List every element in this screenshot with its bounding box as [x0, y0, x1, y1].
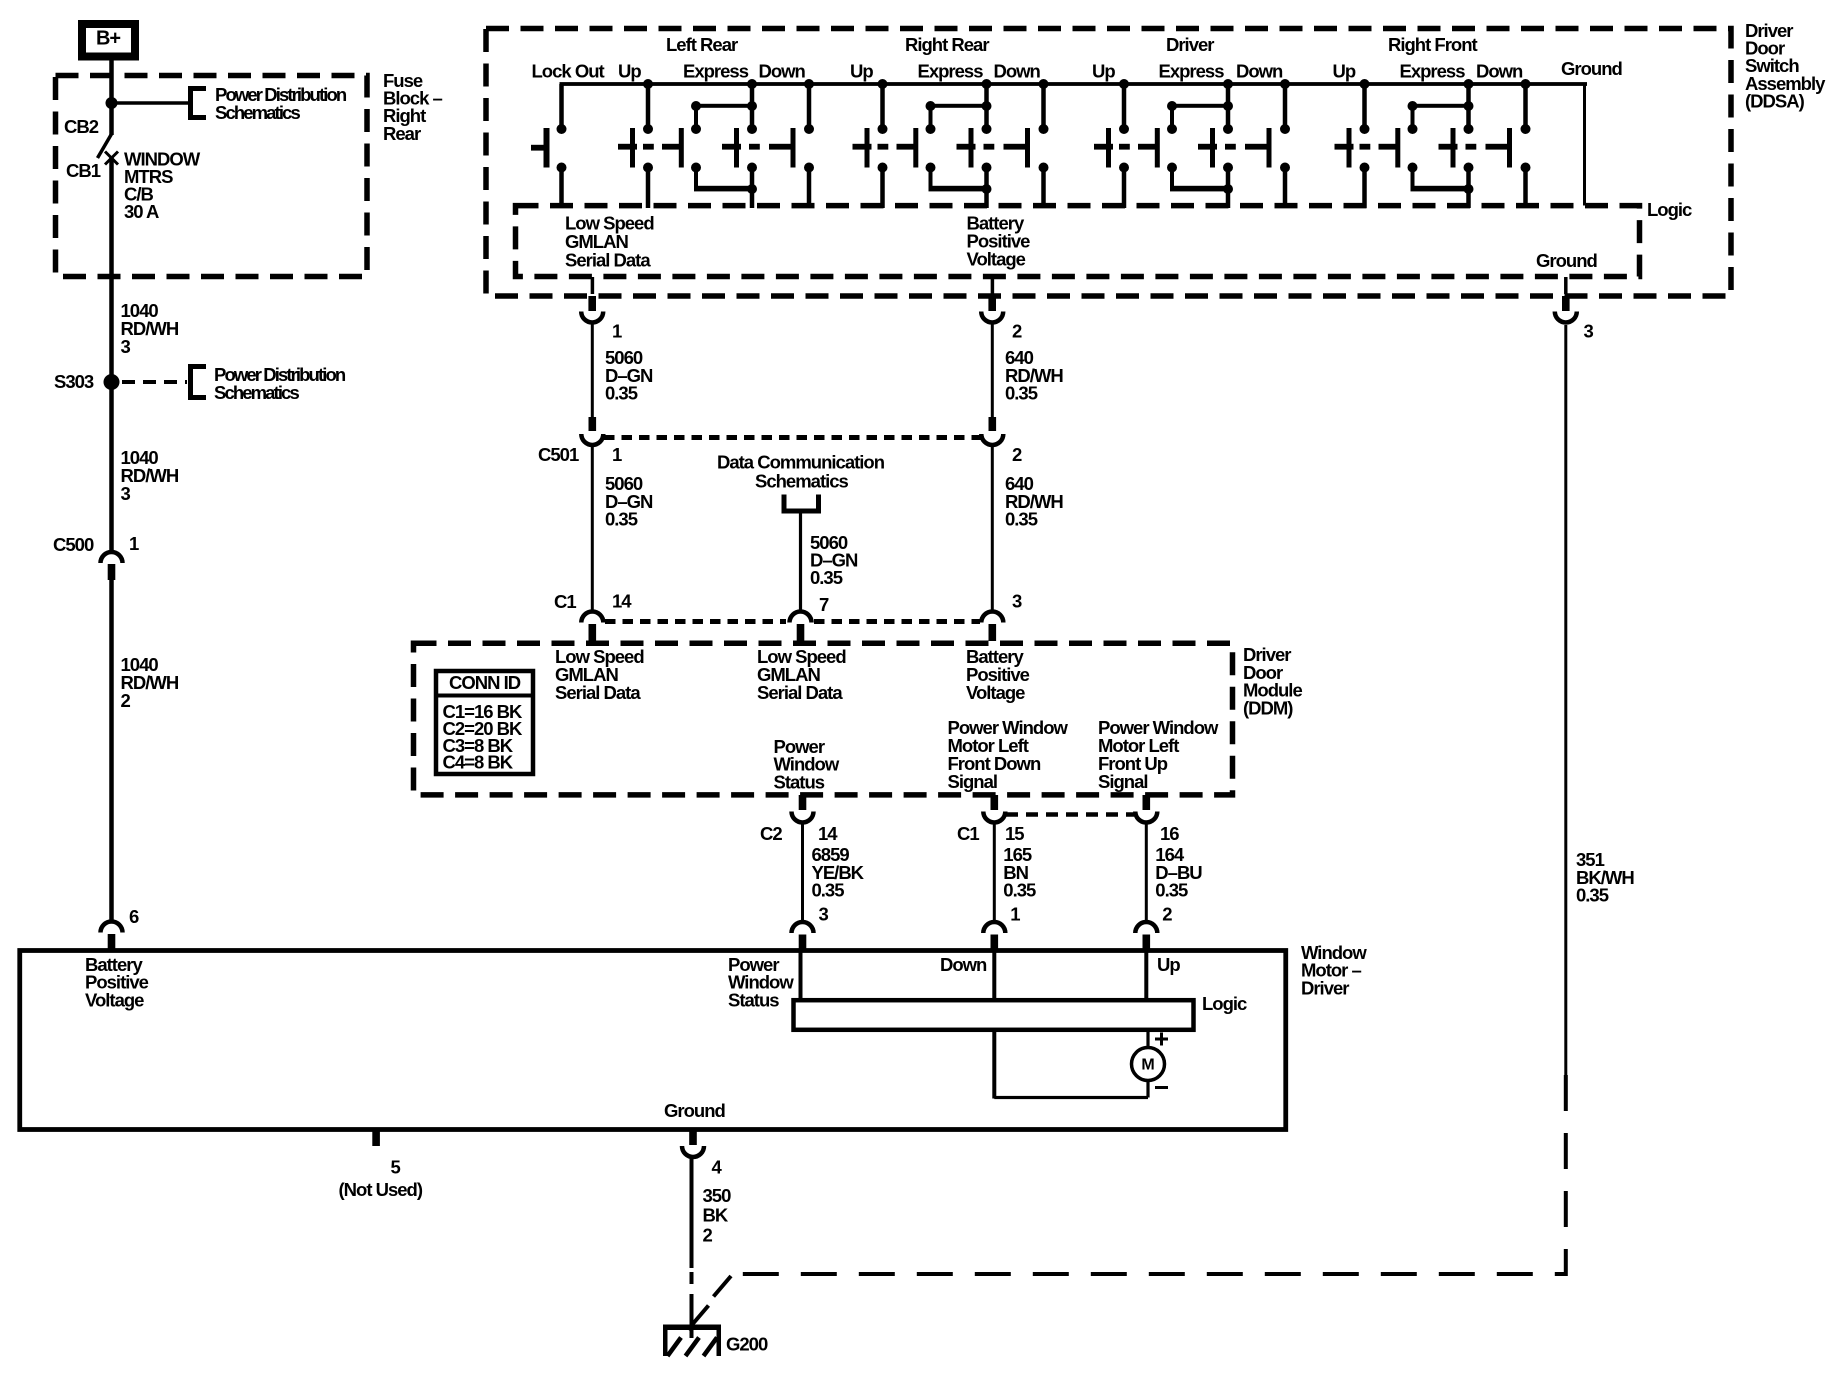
svg-text:0.35: 0.35: [1576, 885, 1609, 906]
wire 5060 D-GN data communication branch: [799, 511, 802, 611]
Driver Down switch terminals: [1280, 124, 1290, 173]
Right Front Down switch bus junction dot: [1521, 79, 1531, 89]
label wire 350 BK 2: [703, 1185, 732, 1245]
wire from DDM pin 14 to window motor: [801, 823, 804, 921]
label Data Communication Schematics: [717, 452, 885, 492]
Right Rear Express switch bus junction dot: [982, 79, 992, 89]
Right Front Express switch bus junction dot: [1464, 79, 1474, 89]
svg-text:0.35: 0.35: [1005, 383, 1038, 404]
bracket Data Communication Schematics: [784, 495, 819, 512]
Right Rear Express switch contacts glyph: [957, 128, 1031, 168]
DDSA pin 3 ground wire through logic edge: [1564, 277, 1568, 294]
label Power Window Status (DDM): [774, 736, 840, 792]
svg-text:C501: C501: [538, 444, 579, 465]
label Low Speed GMLAN Serial Data (DDM pin 7): [757, 646, 846, 703]
svg-text:Data Communication: Data Communication: [717, 452, 885, 473]
wire down signal below logic block: [992, 1030, 996, 1099]
Driver Up switch terminals: [1119, 124, 1129, 173]
svg-text:Right Front: Right Front: [1388, 34, 1478, 55]
label Low Speed GMLAN Serial Data (DDM pin 14): [555, 646, 644, 703]
svg-text:Ground: Ground: [664, 1100, 725, 1121]
svg-text:16: 16: [1160, 823, 1179, 844]
wire motor return horizontal: [994, 1096, 1148, 1099]
Left Rear Express upper bracket: [691, 101, 757, 127]
svg-text:0.35: 0.35: [1003, 880, 1036, 901]
Right Rear Up switch terminals: [878, 124, 888, 173]
svg-text:B+: B+: [96, 28, 120, 50]
window motor pin 4 stub: [689, 1131, 697, 1145]
wire C500 to window motor pin 6: [109, 580, 114, 920]
svg-text:Driver: Driver: [1166, 34, 1214, 55]
svg-text:0.35: 0.35: [810, 567, 843, 588]
label wire 640 RD/WH 0.35 (upper): [1005, 347, 1063, 404]
wire 350 BK to G200: [690, 1157, 694, 1268]
ground G200 symbol: [663, 1325, 721, 1357]
svg-text:Express: Express: [683, 61, 749, 82]
wire 5060 D-GN C501 to C1: [591, 445, 594, 611]
Right Front Up switch contacts glyph: [1335, 128, 1401, 168]
svg-text:0.35: 0.35: [605, 383, 638, 404]
wire power window status into logic block: [799, 952, 803, 1001]
wire 640 RD/WH from pin 2 to C501: [991, 323, 994, 421]
Right Rear Express switch terminals: [926, 124, 992, 173]
svg-text:Logic: Logic: [1647, 199, 1692, 220]
svg-text:0.35: 0.35: [605, 509, 638, 530]
window motor pin 1 terminal cup: [983, 922, 1005, 933]
DDSA pin 1 wire through logic edge: [591, 277, 595, 294]
node CB2 junction dot: [106, 97, 118, 109]
svg-text:Up: Up: [850, 61, 873, 82]
label Battery Positive Voltage (DDM pin 3): [966, 646, 1030, 703]
ground G200 strike slash: [688, 1306, 709, 1330]
Left Rear Up switch contacts glyph: [618, 128, 684, 168]
svg-text:Lock Out: Lock Out: [532, 61, 605, 82]
svg-text:Voltage: Voltage: [967, 249, 1026, 270]
connector C1 stub into DDM: [989, 624, 997, 641]
dashed branch S303 to power distribution bracket: [122, 380, 187, 384]
svg-text:Driver: Driver: [1301, 977, 1349, 998]
label Battery Positive Voltage (DDSA logic): [967, 213, 1031, 270]
circuit breaker CB1 contact X: [105, 152, 118, 165]
svg-text:BK: BK: [703, 1205, 729, 1226]
window motor driver box outline: [20, 951, 1286, 1130]
label Driver Door Switch Assembly (DDSA): [1745, 20, 1826, 111]
label Driver Door Module (DDM): [1243, 644, 1302, 718]
svg-text:15: 15: [1005, 823, 1024, 844]
svg-text:1: 1: [612, 444, 622, 465]
DDSA pin 1 male pin stub: [588, 296, 596, 311]
svg-text:CONN ID: CONN ID: [449, 672, 521, 693]
svg-text:Serial Data: Serial Data: [555, 682, 641, 703]
wire 350 BK lower segment: [690, 1294, 694, 1338]
Driver Express switch drop wire: [1226, 84, 1231, 127]
svg-text:Ground: Ground: [1561, 58, 1622, 79]
B+ battery feed box: [82, 24, 135, 57]
svg-text:0.35: 0.35: [812, 880, 845, 901]
Right Front Down switch wire to logic: [1523, 171, 1528, 208]
DDM pin 14 terminal cup: [792, 812, 814, 823]
lock out switch contact bar: [531, 128, 550, 168]
CONN ID table box: [436, 671, 533, 774]
Right Rear Up switch bus junction dot: [878, 79, 888, 89]
bracket Power Distribution Schematics (top): [191, 89, 207, 118]
connector pin 6 male pin stub: [108, 934, 116, 950]
svg-text:Serial Data: Serial Data: [757, 682, 843, 703]
label Power Window Status (motor): [728, 954, 794, 1010]
svg-text:C4=8 BK: C4=8 BK: [443, 752, 514, 773]
ground drop wire from bus to logic: [1583, 84, 1586, 206]
svg-text:2: 2: [1012, 321, 1022, 342]
Right Front Up switch terminals: [1360, 124, 1370, 173]
Driver Up switch wire to logic: [1122, 171, 1127, 208]
svg-text:Up: Up: [1333, 61, 1356, 82]
Right Front Up switch drop wire: [1362, 84, 1367, 127]
svg-text:C1: C1: [554, 591, 576, 612]
svg-text:6: 6: [129, 906, 139, 927]
wire up into logic block: [1144, 952, 1148, 1001]
label motor minus: [1155, 1086, 1168, 1089]
svg-text:5: 5: [391, 1157, 401, 1178]
svg-text:3: 3: [121, 336, 131, 357]
svg-text:30 A: 30 A: [124, 201, 159, 222]
svg-text:CB2: CB2: [64, 116, 99, 137]
Right Rear Express upper bracket: [926, 101, 992, 127]
svg-text:14: 14: [818, 823, 838, 844]
DDSA pin 2 wire through logic edge: [991, 277, 995, 294]
svg-text:Logic: Logic: [1202, 993, 1247, 1014]
svg-text:3: 3: [121, 483, 131, 504]
label Low Speed GMLAN Serial Data (DDSA logic): [565, 213, 654, 271]
DDSA pin 2 terminal cup: [981, 312, 1003, 323]
label Power Distribution Schematics (top): [215, 84, 347, 123]
connector C501 stub pin 2: [989, 417, 997, 431]
label Power Distribution Schematics (S303): [214, 364, 346, 403]
window motor pin 3 stub: [799, 935, 807, 951]
labels connector IDs C1-C4: [443, 701, 524, 773]
svg-text:CB1: CB1: [66, 160, 101, 181]
label Battery Positive Voltage (motor): [85, 954, 149, 1010]
splice S303 dot: [104, 374, 120, 390]
DDSA pin 3 terminal cup: [1555, 312, 1577, 323]
Right Rear Up switch drop wire: [880, 84, 885, 127]
Driver Up switch bus junction dot: [1119, 79, 1129, 89]
window motor pin 3 terminal cup: [792, 922, 814, 933]
bracket Power Distribution Schematics (S303): [191, 367, 207, 398]
Driver Up switch drop wire: [1122, 84, 1127, 127]
svg-text:Down: Down: [1236, 61, 1283, 82]
connector C1 cup: [581, 612, 603, 623]
svg-text:3: 3: [819, 904, 829, 925]
B+ bus wire across switches: [560, 82, 1588, 86]
DDM pin 16 terminal cup: [1135, 812, 1157, 823]
svg-text:Status: Status: [774, 771, 825, 792]
Left Rear Up switch drop wire: [646, 84, 651, 127]
svg-text:3: 3: [1584, 321, 1594, 342]
connector C1 dotted line right: [814, 619, 980, 624]
Driver Down switch drop wire: [1283, 84, 1288, 127]
Left Rear Express switch contacts glyph: [722, 128, 796, 168]
wire junction to power distribution bracket: [112, 101, 190, 105]
label wire 1040 RD/WH 3 (upper): [121, 300, 179, 357]
label wire 640 RD/WH 0.35 (C501 to DDM): [1005, 473, 1063, 530]
svg-text:Left Rear: Left Rear: [666, 34, 738, 55]
svg-text:(Not Used): (Not Used): [339, 1179, 423, 1200]
svg-text:350: 350: [703, 1185, 732, 1206]
Left Rear Up switch wire to logic: [646, 171, 651, 208]
wire from DDM pin 15 to window motor: [993, 823, 996, 921]
connector C1 dotted line left: [605, 619, 786, 624]
label WINDOW MTRS C/B 30 A: [124, 149, 201, 223]
connector C501 dotted line: [604, 435, 981, 440]
connector C1 cup: [790, 612, 812, 623]
svg-text:7: 7: [819, 594, 829, 615]
Right Front Express switch contacts glyph: [1439, 128, 1513, 168]
Right Rear Down switch drop wire: [1041, 84, 1046, 127]
motor logic block rectangle: [794, 1000, 1194, 1030]
label wire 1040 RD/WH 2: [121, 654, 179, 711]
driver door module DDM dashed outline: [414, 643, 1233, 795]
Right Front Express switch terminals: [1408, 124, 1474, 173]
connector C500 terminal cup: [101, 552, 123, 563]
label wire 5060 D-GN 0.35 (upper): [605, 347, 653, 404]
circuit breaker CB1 blade: [98, 134, 112, 158]
Right Front Up switch bus junction dot: [1360, 79, 1370, 89]
svg-text:Voltage: Voltage: [966, 682, 1025, 703]
svg-text:Serial Data: Serial Data: [565, 250, 651, 271]
window motor pin 4 terminal cup: [682, 1146, 704, 1157]
svg-text:Up: Up: [618, 61, 641, 82]
Right Rear Express lower bracket: [929, 171, 992, 194]
Left Rear Down switch wire to logic: [807, 171, 812, 208]
lock out switch terminals and wires: [557, 84, 567, 208]
svg-text:Schematics: Schematics: [755, 471, 849, 492]
svg-text:Signal: Signal: [1098, 771, 1148, 792]
wire 351 BK/WH dashed run to G200: [737, 1075, 1566, 1274]
Left Rear Express switch terminals: [691, 124, 757, 173]
svg-text:Right Rear: Right Rear: [905, 34, 989, 55]
svg-text:Rear: Rear: [383, 123, 421, 144]
label wire 6859 YE/BK 0.35: [812, 844, 865, 901]
connector C501 stub pin 1: [589, 417, 597, 431]
label wire 351 BK/WH 0.35: [1576, 849, 1634, 906]
wire CB1 to S303: [109, 157, 114, 376]
Right Front Down switch drop wire: [1523, 84, 1528, 127]
svg-text:Down: Down: [994, 61, 1041, 82]
svg-text:C1: C1: [957, 823, 979, 844]
wire from DDM pin 16 to window motor: [1145, 823, 1148, 921]
Left Rear Up switch bus junction dot: [643, 79, 653, 89]
svg-text:14: 14: [612, 591, 632, 612]
label Fuse Block - Right Rear: [383, 70, 443, 144]
wire 351 BK/WH ground run (solid part): [1564, 325, 1567, 1075]
Driver Up switch contacts glyph: [1094, 128, 1160, 168]
DDSA pin 1 terminal cup: [581, 312, 603, 323]
Left Rear Express switch drop wire: [750, 84, 755, 127]
Left Rear Express switch bus junction dot: [747, 79, 757, 89]
CONN ID header underline: [434, 694, 535, 698]
connector C1 stub into DDM: [589, 624, 597, 641]
Left Rear Down switch terminals: [804, 124, 814, 173]
DDM pin 15 terminal cup: [983, 812, 1005, 823]
svg-text:C2: C2: [760, 823, 782, 844]
label Power Window Motor Left Front Up Signal: [1098, 717, 1219, 792]
svg-text:2: 2: [1012, 444, 1022, 465]
svg-text:3: 3: [1012, 591, 1022, 612]
svg-text:1: 1: [129, 533, 139, 554]
wire B+ to fuse block: [109, 60, 114, 135]
Left Rear Down switch bus junction dot: [804, 79, 814, 89]
Driver Down switch wire to logic: [1283, 171, 1288, 208]
DDM pin 14 stub: [799, 795, 807, 810]
connector C501 cup pin 2: [981, 434, 1003, 445]
svg-text:Schematics: Schematics: [215, 102, 300, 123]
svg-text:Express: Express: [1400, 61, 1466, 82]
DDSA pin 2 male pin stub: [988, 296, 996, 311]
svg-text:2: 2: [703, 1224, 713, 1245]
connector C500 male pin stub: [108, 564, 116, 580]
svg-text:Status: Status: [728, 989, 779, 1010]
wire S303 to C500: [109, 388, 114, 550]
Right Front Up switch wire to logic: [1362, 171, 1367, 208]
svg-text:2: 2: [1162, 904, 1172, 925]
wire down into logic block: [992, 952, 996, 1001]
fuse block dashed outline (Fuse Block - Right Rear): [56, 76, 368, 277]
svg-text:Up: Up: [1157, 954, 1180, 975]
label Power Window Motor Left Front Down Signal: [948, 717, 1069, 792]
svg-text:G200: G200: [726, 1334, 768, 1355]
svg-text:(DDM): (DDM): [1243, 697, 1293, 718]
window motor pin 5 stub: [372, 1131, 380, 1146]
Right Rear Down switch wire to logic: [1041, 171, 1046, 208]
Right Front Express switch drop wire: [1466, 84, 1471, 127]
wire 351 BK/WH diagonal end at G200: [714, 1276, 732, 1297]
svg-text:2: 2: [121, 690, 131, 711]
Right Front Express upper bracket: [1408, 101, 1474, 127]
wire 640 RD/WH C501 to C1: [991, 445, 994, 611]
svg-text:Down: Down: [1476, 61, 1523, 82]
wire 350 BK dashed segment: [690, 1272, 694, 1284]
svg-text:Express: Express: [1159, 61, 1225, 82]
connector C501 cup pin 1: [581, 434, 603, 445]
motor M circle: [1132, 1048, 1165, 1081]
Driver Express lower bracket: [1170, 171, 1233, 194]
svg-text:1: 1: [612, 321, 622, 342]
wire motor negative lead: [1146, 1081, 1149, 1098]
Driver Express switch bus junction dot: [1223, 79, 1233, 89]
svg-text:Up: Up: [1092, 61, 1115, 82]
dotted link between DDM C1 pin 15 and pin 16 cups: [1006, 812, 1134, 817]
window motor pin 2 stub: [1143, 935, 1151, 951]
svg-text:0.35: 0.35: [1005, 509, 1038, 530]
Driver Express switch terminals: [1167, 124, 1233, 173]
svg-text:S303: S303: [54, 371, 94, 392]
label wire 165 BN 0.35: [1003, 844, 1036, 901]
driver door switch assembly DDSA dashed outline: [486, 29, 1731, 297]
DDM pin 16 stub: [1143, 795, 1151, 810]
Right Rear Up switch wire to logic: [880, 171, 885, 208]
Driver Express upper bracket: [1167, 101, 1233, 127]
connector pin 6 terminal cup: [101, 922, 123, 933]
svg-text:Express: Express: [918, 61, 984, 82]
Right Rear Express switch wire to logic: [984, 192, 989, 208]
Left Rear Express lower bracket: [694, 171, 757, 194]
connector C1 stub into DDM: [797, 624, 805, 641]
Driver Express switch wire to logic: [1226, 192, 1231, 208]
window motor pin 1 stub: [991, 935, 999, 951]
Right Front Express switch wire to logic: [1466, 192, 1471, 208]
Right Rear Down switch terminals: [1039, 124, 1049, 173]
svg-text:Voltage: Voltage: [85, 989, 144, 1010]
Left Rear Up switch terminals: [643, 124, 653, 173]
Left Rear Express switch wire to logic: [750, 192, 755, 208]
Right Rear Down switch bus junction dot: [1039, 79, 1049, 89]
label Window Motor - Driver: [1301, 942, 1367, 998]
label wire 5060 D-GN 0.35 (C501 to DDM): [605, 473, 653, 530]
connector C1 cup: [981, 612, 1003, 623]
label motor plus: [1155, 1033, 1168, 1046]
Left Rear Down switch drop wire: [807, 84, 812, 127]
Driver Down switch bus junction dot: [1280, 79, 1290, 89]
Right Front Down switch terminals: [1521, 124, 1531, 173]
logic block dashed outline inside DDSA: [516, 206, 1640, 277]
svg-text:Schematics: Schematics: [214, 382, 299, 403]
svg-text:Ground: Ground: [1536, 250, 1597, 271]
label wire 164 D–BU 0.35: [1155, 844, 1202, 901]
label wire 1040 RD/WH 3 (lower): [121, 447, 179, 504]
Right Rear Up switch contacts glyph: [853, 128, 919, 168]
svg-text:C500: C500: [53, 534, 94, 555]
window motor pin 2 terminal cup: [1135, 922, 1157, 933]
wire 5060 D-GN from pin 1 to C501: [591, 323, 594, 421]
label wire 5060 D-GN 0.35 (branch): [810, 532, 858, 588]
DDM pin 15 stub: [991, 795, 999, 810]
svg-text:Down: Down: [940, 954, 987, 975]
Right Rear Express switch drop wire: [984, 84, 989, 127]
svg-text:0.35: 0.35: [1155, 880, 1188, 901]
wire motor positive lead: [1146, 1030, 1149, 1048]
svg-text:Signal: Signal: [948, 771, 998, 792]
svg-text:1: 1: [1010, 904, 1020, 925]
svg-text:(DDSA): (DDSA): [1745, 90, 1805, 111]
svg-text:M: M: [1141, 1057, 1154, 1074]
Right Front Express lower bracket: [1411, 171, 1474, 194]
Driver Express switch contacts glyph: [1198, 128, 1272, 168]
DDSA pin 3 male pin stub: [1562, 296, 1570, 311]
svg-text:Down: Down: [759, 61, 806, 82]
